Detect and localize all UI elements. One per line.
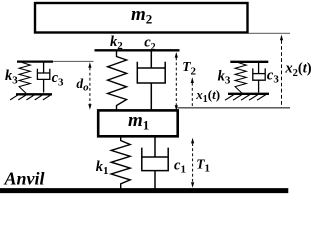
svg-text:x2(t): x2(t) (284, 61, 311, 79)
svg-text:Anvil: Anvil (4, 169, 45, 189)
